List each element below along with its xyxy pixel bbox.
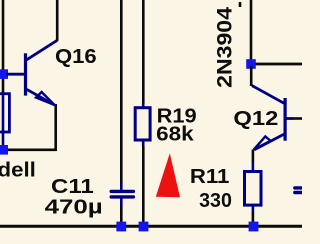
resistor (left edge, partially visible) bbox=[0, 94, 9, 132]
transistor Q16 bbox=[6, 40, 57, 105]
svg-text:C11: C11 bbox=[51, 176, 94, 198]
wire R19 top pin bbox=[142, 103, 145, 108]
text fragment next line (top edge) bbox=[239, 2, 242, 7]
red flag triangle bbox=[156, 153, 180, 197]
wire Q12 emitter down bbox=[252, 150, 255, 163]
svg-text:470µ: 470µ bbox=[45, 197, 103, 219]
wire R19 bottom to rail bbox=[142, 140, 145, 147]
wire C11 bottom pin bbox=[120, 198, 123, 206]
svg-text:68k: 68k bbox=[156, 124, 194, 146]
wire mid-left rail (to C11) bbox=[120, 0, 123, 183]
wire R11 bottom to rail bbox=[252, 213, 255, 225]
node junction left upper bbox=[0, 69, 8, 79]
node junction left lower bbox=[0, 145, 8, 155]
wire Q12 collector down bbox=[250, 66, 253, 86]
wire C11 top pin bbox=[120, 183, 123, 191]
capacitor C11 bbox=[111, 191, 133, 197]
wire top-right horizontal bbox=[251, 63, 302, 66]
node junction bottom R11 bbox=[249, 222, 259, 232]
wire R11 top pin bbox=[252, 162, 255, 173]
capacitor (right edge, partially visible) bbox=[295, 188, 302, 193]
wire top-right rail bbox=[250, 0, 253, 62]
node junction top-right bbox=[246, 59, 256, 69]
wire R11 bottom to rail bbox=[252, 205, 255, 213]
wire left rail through resistor bbox=[2, 94, 5, 150]
svg-text:330: 330 bbox=[199, 190, 232, 212]
svg-text:Q12: Q12 bbox=[233, 108, 278, 130]
svg-text:2N3904: 2N3904 bbox=[213, 7, 236, 88]
node junction bottom R19 bbox=[139, 222, 149, 232]
wire C11 bottom to rail bbox=[120, 205, 123, 224]
transistor Q12 bbox=[252, 86, 294, 150]
svg-text:R11: R11 bbox=[190, 166, 230, 188]
svg-text:Q16: Q16 bbox=[55, 46, 97, 68]
wire Q16 collector up bbox=[56, 0, 59, 41]
resistor R11 bbox=[245, 172, 262, 206]
wire mid-right rail (to R19) bbox=[142, 0, 145, 104]
svg-text:dell: dell bbox=[0, 160, 36, 182]
wire bottom rail bbox=[0, 225, 302, 228]
resistor R19 bbox=[135, 108, 150, 140]
wire left rail top bbox=[2, 0, 5, 94]
wire Q12 base right bbox=[294, 117, 302, 120]
wire R19 bottom to rail bbox=[142, 146, 145, 225]
node junction bottom C11 bbox=[116, 222, 126, 232]
wire emitter return (bottom-left L) bbox=[3, 104, 56, 150]
